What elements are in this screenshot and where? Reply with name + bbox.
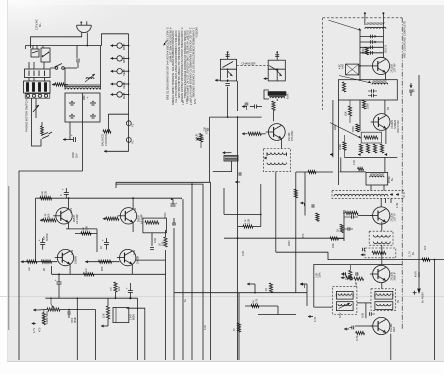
svg-text:6EA8: 6EA8 bbox=[122, 69, 126, 76]
ground arrow below volume bbox=[32, 323, 36, 325]
svg-text:1K: 1K bbox=[264, 288, 268, 291]
resistor bottom 2K bbox=[41, 260, 51, 263]
AC plug P1 bbox=[77, 24, 92, 26]
svg-text:B+ 40/5V: B+ 40/5V bbox=[421, 292, 425, 303]
pilot lamp PL1 bbox=[126, 121, 131, 126]
phono osc bracket bbox=[264, 90, 269, 99]
capacitor below switch A bbox=[227, 81, 229, 82]
resistor if2 bottom bbox=[354, 277, 364, 280]
wire q8 collector bbox=[132, 198, 134, 209]
svg-text:600V: 600V bbox=[132, 314, 136, 320]
wire channel drop a bbox=[76, 298, 78, 360]
wire mixer out right bbox=[384, 157, 386, 172]
svg-text:2ND IF: 2ND IF bbox=[393, 271, 397, 280]
fusible resistor 47 ohm bbox=[55, 83, 65, 86]
capacitor det in bbox=[369, 312, 371, 316]
dashed box neutralizing bbox=[365, 248, 396, 258]
svg-text:680: 680 bbox=[100, 266, 104, 271]
driver transformer box bbox=[143, 218, 167, 233]
svg-text:2000: 2000 bbox=[71, 152, 75, 158]
svg-text:0.2V: 0.2V bbox=[70, 208, 73, 213]
AC outlet connector J2 bbox=[24, 81, 51, 93]
ground cross B plus bbox=[413, 292, 417, 294]
wire channel v2 bbox=[260, 184, 262, 226]
resistor q10 base bbox=[98, 260, 111, 263]
3rd IF box A arrow bbox=[339, 303, 351, 309]
wire volume drop bbox=[95, 310, 97, 361]
svg-text:PH.OSC: PH.OSC bbox=[290, 130, 294, 141]
resistor bottom middle bbox=[269, 283, 272, 293]
wire if takeoff vertical bbox=[340, 157, 342, 172]
wire driver box drop bbox=[151, 233, 153, 246]
neutralizing resistor bbox=[372, 251, 386, 254]
wire q7 emitter bbox=[68, 222, 70, 229]
svg-text:+: + bbox=[55, 278, 57, 282]
capacitor above switch A bbox=[227, 53, 229, 60]
fuse arrow bbox=[52, 84, 55, 86]
svg-text:10K: 10K bbox=[424, 245, 427, 250]
svg-text:0.02: 0.02 bbox=[204, 325, 207, 330]
resistor heater dropping bbox=[103, 130, 111, 133]
capacitor across switch bbox=[76, 46, 78, 59]
resistor 100K mixer left bbox=[343, 142, 346, 150]
tube heater V2 6BQ5 bbox=[117, 56, 122, 61]
resistor 47 bottom bbox=[237, 323, 240, 332]
arrow q10 base bbox=[85, 261, 88, 263]
resistor 15K bottom bbox=[251, 304, 259, 307]
svg-text:DET: DET bbox=[392, 326, 396, 332]
wire osc output down bbox=[275, 172, 277, 253]
rectifier plus lead bbox=[83, 96, 85, 101]
wire q10 collector down bbox=[131, 264, 133, 274]
svg-text:9V: 9V bbox=[387, 107, 390, 110]
wire mixer collector bbox=[384, 100, 386, 114]
wire mixer emitter bbox=[385, 129, 387, 144]
svg-text:BALANCE: BALANCE bbox=[101, 134, 105, 146]
wire osc output corner bbox=[276, 252, 407, 259]
svg-text:8.2K: 8.2K bbox=[44, 190, 48, 196]
osc coil winding 1 bbox=[267, 153, 286, 155]
capacitor driver 0.02 bbox=[150, 247, 154, 249]
capacitor 100MF bbox=[128, 290, 133, 292]
svg-text:3300: 3300 bbox=[361, 48, 365, 54]
tone box arrow bbox=[341, 277, 345, 279]
svg-text:2200: 2200 bbox=[334, 124, 337, 130]
tube heater V3 6EA8 bbox=[117, 69, 122, 74]
wire rf tank right bbox=[382, 29, 384, 58]
wire interlock gap bbox=[28, 78, 30, 82]
svg-text:1ST RF: 1ST RF bbox=[392, 63, 396, 73]
3rd IF box A winding 1 coil bbox=[338, 294, 352, 296]
resistor q8 base 470 bbox=[106, 217, 119, 220]
3rd IF box A winding 2 box bbox=[336, 302, 353, 311]
mixer bias resistor 3 bbox=[373, 144, 376, 153]
wire feedback drop bbox=[96, 229, 98, 252]
svg-text:6BQ5: 6BQ5 bbox=[122, 43, 126, 50]
ground output bbox=[101, 325, 105, 327]
2nd IF coil top bbox=[373, 235, 390, 237]
osc coil winding 2 bbox=[267, 163, 286, 165]
mixer bias resistor 2 bbox=[366, 144, 369, 153]
resistor supply 100K bbox=[40, 197, 52, 200]
wire heater return bbox=[107, 150, 129, 152]
ground arrow cartridge bbox=[235, 181, 240, 183]
svg-text:4.7K: 4.7K bbox=[255, 298, 259, 304]
svg-text:10K: 10K bbox=[29, 267, 31, 271]
svg-text:500MF: 500MF bbox=[45, 233, 49, 241]
mixer bias box bbox=[361, 132, 381, 143]
wire phono motor bbox=[32, 133, 42, 146]
thermistor with arrow bbox=[86, 78, 94, 79]
wire mixer rail left bbox=[337, 100, 339, 185]
bus wire 4 bbox=[191, 184, 193, 360]
1st IF input coil hatch bbox=[370, 173, 371, 175]
wire q8 emitter bbox=[132, 222, 134, 232]
wire cap box out bbox=[126, 308, 144, 360]
svg-text:15K: 15K bbox=[102, 313, 106, 318]
svg-text:0.05: 0.05 bbox=[242, 251, 245, 256]
svg-text:4.4V: 4.4V bbox=[133, 250, 136, 255]
svg-text:0.05: 0.05 bbox=[360, 312, 364, 318]
1st IF transformer dashed box bbox=[332, 191, 404, 199]
svg-text:OSC 6: OSC 6 bbox=[384, 45, 388, 53]
resistor bottom 10K bbox=[27, 260, 37, 263]
wire mixer bias bottom bbox=[344, 156, 397, 158]
antenna terminal left bbox=[364, 13, 366, 25]
tuning slug arrow bbox=[329, 20, 362, 30]
mixer bias resistor 4 bbox=[380, 144, 383, 153]
rf rung capacitor 1 bbox=[360, 35, 383, 37]
capacitor .05 osc bbox=[254, 105, 256, 109]
transistor Q8 2N508 AF AMP bbox=[120, 208, 136, 224]
svg-text:6BQ5: 6BQ5 bbox=[122, 56, 126, 63]
loop antenna plate bbox=[346, 64, 359, 75]
page bottom edge bbox=[7, 361, 444, 363]
left margin edge bbox=[7, 0, 9, 362]
wire bottom v2 bbox=[306, 293, 308, 306]
resistor bus 1 bbox=[164, 237, 167, 247]
svg-text:25V: 25V bbox=[75, 153, 79, 158]
power transformer T1 primary bbox=[65, 88, 100, 90]
wire cartridge down bbox=[213, 161, 232, 172]
wire channel v1 bbox=[223, 188, 225, 214]
resistor 10K agc bbox=[330, 237, 338, 240]
capacitor 50MF output bbox=[57, 281, 62, 283]
svg-text:2.1V: 2.1V bbox=[191, 100, 193, 105]
wire q7 collector bbox=[68, 198, 70, 209]
ground heater return bbox=[104, 150, 107, 152]
resistor channel small bbox=[316, 213, 319, 221]
3rd IF box A winding 1 box bbox=[336, 291, 353, 299]
1st IF coil arrows bbox=[390, 194, 393, 196]
2nd IF transformer dashed box bbox=[369, 231, 393, 245]
svg-text:6EA8: 6EA8 bbox=[122, 82, 126, 89]
tone box cap bbox=[343, 272, 345, 275]
dashed link CHANGER bbox=[237, 64, 269, 66]
svg-text:100: 100 bbox=[117, 286, 121, 291]
wire phono input vertical bbox=[115, 182, 117, 188]
B plus feed arrow bbox=[410, 83, 412, 88]
wire B minus bus left bbox=[19, 171, 83, 360]
svg-text:0.3V: 0.3V bbox=[187, 99, 189, 104]
phono pickup arrow bbox=[223, 152, 232, 154]
svg-text:OSC 6 MIX: OSC 6 MIX bbox=[396, 120, 400, 133]
tube heater V1 6BQ5 bbox=[117, 43, 122, 48]
ground arrow det bbox=[344, 328, 349, 330]
resistor 6.8K bbox=[272, 101, 275, 111]
if1 base resistor bbox=[345, 211, 358, 214]
resistor mixer emitter bbox=[358, 167, 364, 170]
resistor 3300 mixer bbox=[362, 100, 365, 109]
capacitor q7 out bbox=[40, 242, 45, 244]
svg-text:+: + bbox=[87, 96, 89, 100]
ground arrow mixer left bbox=[330, 154, 333, 156]
ground volume left bbox=[33, 309, 37, 311]
capacitor phono motor bbox=[41, 133, 48, 136]
svg-text:10%: 10% bbox=[318, 272, 322, 278]
2nd IF coil bottom bbox=[373, 242, 390, 244]
resistor 10K feedback bbox=[81, 232, 91, 235]
svg-text:+: + bbox=[102, 238, 104, 242]
wire if1 base rail bbox=[343, 210, 345, 241]
long wire B plus rail bbox=[418, 75, 420, 286]
rf tank coil 2 bbox=[372, 83, 388, 85]
wire if takeoff horizontal bbox=[340, 171, 366, 173]
oscillator coil assembly dashed box bbox=[263, 149, 290, 172]
svg-text:8.5V: 8.5V bbox=[193, 98, 197, 104]
driver transformer resistor bbox=[145, 221, 159, 224]
wire channel drop b bbox=[137, 298, 139, 360]
svg-text:4.7V: 4.7V bbox=[32, 327, 36, 333]
svg-text:117V.AC: 117V.AC bbox=[35, 19, 39, 30]
svg-text:AF AMP: AF AMP bbox=[75, 214, 79, 224]
switch S3A wafer bbox=[220, 59, 236, 81]
phono osc transformer T2 core bbox=[268, 92, 286, 96]
phono motor M1 bbox=[41, 126, 44, 135]
wire q9 collector down bbox=[69, 264, 71, 274]
wire driver secondary bbox=[136, 259, 166, 261]
svg-text:+: + bbox=[38, 238, 40, 242]
wire det base rail bbox=[354, 326, 373, 329]
bus wire 2 bbox=[173, 228, 175, 360]
arrow bottom rail bbox=[21, 261, 24, 263]
ground arrow switch B bbox=[264, 78, 269, 80]
rf output box bbox=[338, 80, 397, 100]
wire shield box top outer bbox=[116, 181, 211, 183]
wire q8 out to box bbox=[137, 217, 143, 219]
phono osc coil bbox=[270, 97, 284, 98]
svg-text:1.4V: 1.4V bbox=[134, 208, 137, 213]
arrow osc base resistor bbox=[242, 133, 247, 135]
3rd IF transformer dashed box B bbox=[371, 289, 395, 311]
wire bottom h2 bbox=[245, 305, 278, 307]
ground arrow near osc cap bbox=[242, 106, 247, 108]
svg-text:2N508: 2N508 bbox=[74, 256, 78, 264]
wire if1 takeoff a bbox=[385, 198, 387, 203]
svg-text:3300: 3300 bbox=[366, 103, 370, 109]
wire pilot bracket bbox=[109, 114, 129, 131]
wire if takeoff left bbox=[296, 171, 333, 173]
center bus wire bbox=[237, 81, 239, 111]
wire q7 emitter bus bbox=[66, 228, 97, 230]
resistor 470 if2 bbox=[349, 270, 352, 280]
resistor 10K mixer bbox=[348, 106, 351, 116]
svg-text:15K: 15K bbox=[417, 272, 421, 277]
3rd IF transformer dashed box A bbox=[333, 286, 357, 314]
wire shield box top inner bbox=[116, 184, 203, 360]
tuner dash-dot right boundary bbox=[401, 18, 403, 330]
wire rail to bus3 bbox=[172, 197, 182, 200]
resistor 33K osc base bbox=[248, 132, 262, 135]
ground bottom 2 bbox=[300, 283, 304, 285]
wire bottom h3 bbox=[258, 314, 296, 316]
resistor 15K output bbox=[106, 306, 109, 319]
wire plug right lead bbox=[86, 33, 88, 46]
arrow channel agc bbox=[300, 202, 304, 204]
arrow phono input bbox=[196, 138, 204, 140]
wire channel h2 long bbox=[224, 237, 344, 239]
tone box resistor bbox=[346, 276, 352, 279]
arrow q8 base bbox=[103, 218, 106, 220]
wire channel v5 bbox=[304, 172, 306, 214]
3rd IF box A winding 2 coil bbox=[338, 304, 352, 306]
capacitor if2 emitter bbox=[355, 272, 357, 275]
tube heater V5 6EA8 bbox=[117, 92, 122, 97]
svg-text:+: + bbox=[62, 187, 64, 191]
wire transformer left lead bbox=[64, 68, 66, 90]
resistor 3300 rf bbox=[365, 47, 368, 55]
svg-text:B+: B+ bbox=[390, 177, 394, 181]
tone network box corner bbox=[314, 265, 402, 308]
arrow if2 left bbox=[361, 254, 365, 256]
wire collector join bbox=[52, 273, 166, 275]
capacitor 3300 bbox=[67, 311, 69, 315]
wire if link a bbox=[370, 185, 372, 191]
ground arrow tone box bbox=[300, 283, 304, 285]
transistor Q5 2N1380 PHONO OSC bbox=[268, 124, 285, 141]
note pointer arrow bbox=[164, 41, 167, 46]
svg-text:XTAL: XTAL bbox=[205, 127, 209, 134]
svg-text:+: + bbox=[126, 286, 128, 290]
ground arrow switch A bbox=[215, 79, 220, 81]
tuner dashed enclosure top bbox=[323, 17, 403, 19]
3rd IF box B winding 2 coil bbox=[377, 304, 391, 306]
antenna rod coil L1 core hatch bbox=[366, 22, 368, 25]
svg-text:150: 150 bbox=[161, 241, 165, 246]
filter capacitor 2000/25V bbox=[63, 139, 67, 141]
rectifier diode plates bbox=[69, 102, 75, 104]
volume control potentiometer bbox=[47, 308, 60, 311]
switch S3B wafer bbox=[268, 60, 285, 81]
resistor 470 below volume bbox=[42, 313, 45, 325]
wire bottom h1 bbox=[174, 292, 307, 294]
arrow bottom right bbox=[308, 316, 313, 318]
rf box capacitor a bbox=[371, 89, 373, 92]
wire channel v4 bbox=[295, 172, 297, 293]
wire channel h1 bbox=[224, 213, 261, 215]
transistor Q1 2N1526 1ST RF bbox=[372, 57, 389, 74]
capacitor above switch B bbox=[276, 53, 278, 61]
svg-text:ANT: ANT bbox=[341, 63, 345, 69]
svg-text:B+: B+ bbox=[411, 251, 415, 255]
tube heater V4 6EA8 bbox=[117, 81, 122, 86]
rf rung capacitor 4 bbox=[360, 52, 383, 54]
rf rung capacitor 3 bbox=[360, 46, 383, 48]
wire bottom v1 bbox=[238, 293, 240, 360]
ground arrow if2 bbox=[341, 273, 346, 275]
3rd IF box B winding 1 coil bbox=[377, 294, 391, 296]
rf box capacitor b bbox=[371, 94, 373, 97]
rf box resistor bbox=[342, 82, 345, 92]
svg-text:2.2: 2.2 bbox=[84, 268, 88, 272]
wire switch drop bbox=[25, 46, 27, 50]
resistor on v4 bbox=[294, 189, 297, 198]
wire det transformer link bbox=[357, 302, 371, 304]
svg-text:220K: 220K bbox=[288, 240, 291, 246]
svg-text:6EA8: 6EA8 bbox=[122, 92, 126, 99]
svg-text:1ST IF: 1ST IF bbox=[393, 213, 397, 222]
wire mains lower bbox=[26, 45, 102, 47]
rf rung capacitor 2 bbox=[360, 41, 383, 43]
osc coil arrows bbox=[264, 157, 267, 159]
rf tank coil 2 hatch bbox=[373, 80, 374, 82]
wire if1 takeoff b bbox=[390, 198, 392, 203]
transistor Q4 2N1526 2ND IF bbox=[373, 265, 390, 282]
wire heater rail right bbox=[128, 34, 130, 152]
svg-text:4.5V: 4.5V bbox=[338, 312, 342, 318]
page fold line bbox=[0, 296, 444, 298]
wire audio bottom rail bbox=[21, 261, 57, 263]
svg-text:3.3K: 3.3K bbox=[85, 225, 89, 231]
svg-text:1.4V: 1.4V bbox=[396, 203, 399, 208]
tuning gang diagonal 2 bbox=[330, 123, 361, 139]
long wire AVC rail bbox=[434, 260, 436, 360]
wire bus 210 down bbox=[210, 182, 212, 360]
wire phono takeoff drop bbox=[209, 117, 211, 182]
resistor q7 base 3.3K bbox=[43, 219, 56, 222]
wire volume out bbox=[60, 309, 96, 311]
svg-text:6.8K: 6.8K bbox=[286, 93, 290, 99]
tuner dashed enclosure left bbox=[322, 18, 324, 110]
1st IF input transformer box bbox=[366, 173, 388, 186]
wire if2 collector to box bbox=[381, 283, 383, 289]
wire if2 link bottom bbox=[381, 245, 383, 265]
wire output node rail bbox=[45, 297, 137, 299]
if1 base capacitor bbox=[351, 215, 353, 218]
wire audio left bus bbox=[35, 198, 37, 262]
wire ant to rf base bbox=[359, 65, 370, 67]
svg-text:PHONO MOTOR SWITCH: PHONO MOTOR SWITCH bbox=[25, 99, 29, 132]
tuning slug arrow 2 bbox=[339, 76, 371, 84]
svg-text:0.05: 0.05 bbox=[353, 160, 356, 165]
on-off switch S1C bbox=[55, 67, 58, 70]
wire heater feed riser bbox=[102, 34, 129, 46]
wire switch to interlock bbox=[28, 62, 30, 69]
wire transformer right lead bbox=[100, 46, 102, 90]
phono cartridge hatched block bbox=[224, 155, 238, 161]
power switch S1 section A bbox=[31, 49, 39, 57]
capacitor channel agc bbox=[311, 204, 313, 207]
wire osc base rail bbox=[210, 116, 262, 118]
antenna rod coil L1 bbox=[365, 27, 386, 28]
capacitor bus 2 bbox=[172, 222, 176, 224]
capacitor if1 bypass bbox=[347, 227, 349, 230]
svg-text:4.7K: 4.7K bbox=[313, 316, 317, 322]
svg-text:2K: 2K bbox=[42, 268, 46, 271]
svg-text:4.7K: 4.7K bbox=[355, 335, 359, 341]
3rd IF box B winding 2 box bbox=[375, 302, 393, 310]
transistor Q10 2N508 DRIVER bbox=[120, 249, 136, 265]
